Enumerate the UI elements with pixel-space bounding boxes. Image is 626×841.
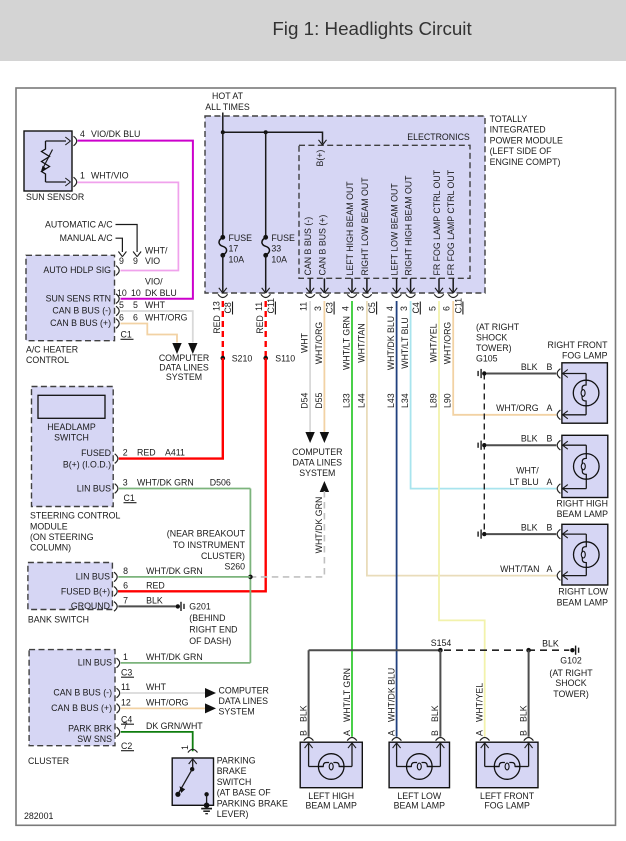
wire D54 WHT: [309, 301, 311, 432]
svg-text:POWER MODULE: POWER MODULE: [490, 135, 563, 145]
connector sun sensor pin 4: [74, 136, 77, 146]
svg-text:10: 10: [131, 288, 141, 298]
svg-text:CONTROL: CONTROL: [26, 355, 69, 365]
junction fog lamp ground: [526, 648, 531, 653]
svg-text:LEFT LOW: LEFT LOW: [397, 791, 442, 801]
wire WHT/VIO sun sensor to AC: [78, 182, 179, 270]
svg-text:LIN BUS: LIN BUS: [77, 483, 111, 493]
ground G102: [570, 648, 574, 652]
svg-text:OF DASH): OF DASH): [189, 636, 231, 646]
svg-text:RIGHT END: RIGHT END: [189, 625, 237, 635]
connector bank pin 7: [114, 602, 117, 612]
wire D55 WHT/ORG: [323, 301, 325, 432]
svg-text:WHT/DK GRN: WHT/DK GRN: [146, 652, 203, 662]
parking brake switch contact arrow: [189, 759, 193, 764]
svg-text:WHT/: WHT/: [145, 246, 168, 256]
svg-text:WHT/YEL: WHT/YEL: [428, 323, 438, 362]
svg-text:BRAKE: BRAKE: [217, 766, 247, 776]
svg-text:5: 5: [428, 306, 438, 311]
svg-text:RED: RED: [146, 580, 165, 590]
svg-text:INTEGRATED: INTEGRATED: [490, 125, 546, 135]
svg-text:RED: RED: [255, 315, 265, 334]
svg-text:WHT/TAN: WHT/TAN: [500, 564, 539, 574]
svg-text:3: 3: [355, 306, 365, 311]
svg-text:PARKING: PARKING: [217, 756, 256, 766]
wire RED fused C11 dashed: [265, 301, 267, 358]
splice S110: [263, 356, 268, 361]
svg-text:5: 5: [119, 300, 124, 310]
ground bus dashed to G102: [444, 649, 569, 651]
svg-text:SYSTEM: SYSTEM: [219, 707, 255, 717]
svg-text:(BEHIND: (BEHIND: [189, 613, 225, 623]
splice S260: [248, 575, 253, 580]
arrow fuse17 out: [219, 288, 223, 293]
svg-text:BEAM LAMP: BEAM LAMP: [557, 509, 608, 519]
wire manual ac arrow: [116, 238, 123, 252]
svg-text:L43: L43: [386, 393, 396, 408]
svg-text:CAN B BUS (+): CAN B BUS (+): [317, 215, 327, 276]
wire BLK left high beam: [308, 650, 310, 737]
svg-text:7: 7: [123, 596, 128, 606]
svg-text:BLK: BLK: [298, 705, 308, 722]
svg-text:WHT/DK BLU: WHT/DK BLU: [386, 668, 396, 722]
svg-text:WHT/DK GRN: WHT/DK GRN: [146, 566, 203, 576]
svg-text:AUTO HDLP SIG: AUTO HDLP SIG: [43, 265, 111, 275]
svg-text:C4: C4: [411, 302, 421, 313]
svg-text:CLUSTER): CLUSTER): [201, 551, 245, 561]
svg-text:VIO/: VIO/: [145, 276, 163, 286]
svg-text:C11: C11: [454, 298, 464, 314]
wire automatic ac arrow: [116, 225, 138, 253]
svg-text:DK BLU: DK BLU: [145, 288, 177, 298]
svg-text:WHT/TAN: WHT/TAN: [356, 323, 366, 362]
svg-text:TOTALLY: TOTALLY: [490, 114, 528, 124]
svg-text:4: 4: [80, 129, 85, 139]
svg-text:(AT RIGHT: (AT RIGHT: [476, 322, 520, 332]
svg-text:L34: L34: [400, 393, 410, 408]
svg-text:G102: G102: [560, 655, 582, 665]
wire RED fused C8 dashed: [222, 301, 224, 358]
svg-text:L89: L89: [428, 393, 438, 408]
svg-text:FOG LAMP: FOG LAMP: [484, 800, 530, 810]
svg-text:DATA LINES: DATA LINES: [293, 458, 343, 468]
wire RED A411 to headlamp switch: [119, 358, 223, 459]
svg-text:A: A: [342, 730, 352, 736]
svg-text:WHT/DK GRN: WHT/DK GRN: [137, 478, 194, 488]
arrow electronics pin out 2: [348, 288, 352, 293]
svg-text:4: 4: [385, 306, 395, 311]
svg-text:3: 3: [313, 306, 323, 311]
svg-text:SW SNS: SW SNS: [77, 734, 112, 744]
parking brake switch ground leg: [204, 792, 208, 796]
svg-text:3: 3: [399, 306, 409, 311]
svg-text:VIO: VIO: [145, 256, 160, 266]
svg-text:CAN B BUS (-): CAN B BUS (-): [303, 217, 313, 276]
steering control module box: [32, 387, 114, 507]
svg-text:5: 5: [133, 300, 138, 310]
wire WHT/DK GRN D506: [119, 488, 250, 490]
svg-text:BEAM LAMP: BEAM LAMP: [557, 598, 608, 608]
svg-text:BEAM LAMP: BEAM LAMP: [306, 800, 357, 810]
connector steering pin 3: [115, 484, 118, 494]
svg-text:AUTOMATIC A/C: AUTOMATIC A/C: [45, 219, 113, 229]
svg-text:LEFT HIGH: LEFT HIGH: [308, 791, 354, 801]
svg-text:S260: S260: [224, 562, 245, 572]
svg-text:(AT BASE OF: (AT BASE OF: [217, 788, 272, 798]
svg-text:10A: 10A: [271, 254, 287, 264]
sun sensor box: [24, 131, 72, 191]
svg-text:D54: D54: [300, 393, 310, 409]
wire WHT cluster: [121, 692, 207, 694]
ground bus left lamps: [309, 649, 441, 651]
wire BLK to G201: [118, 605, 176, 607]
svg-text:HEADLAMP: HEADLAMP: [47, 422, 96, 432]
svg-text:LIN BUS: LIN BUS: [76, 571, 110, 581]
wire WHT/ORG right fog lamp: [453, 301, 556, 415]
wire WHT/TAN right low beam: [367, 301, 556, 576]
parking brake switch lever: [190, 767, 194, 771]
connector arc pin 3: [362, 294, 372, 297]
wire WHT can b minus ac: [121, 311, 193, 343]
chassis ground right 2: [482, 443, 486, 447]
wire WHT/ORG can b plus ac: [121, 324, 178, 343]
connector parking brake pin 1: [188, 749, 198, 752]
svg-text:C5: C5: [367, 302, 377, 313]
svg-text:FR FOG LAMP CTRL OUT: FR FOG LAMP CTRL OUT: [446, 169, 456, 275]
lamp right high beam: [562, 435, 608, 497]
cluster box: [29, 650, 115, 746]
svg-text:SHOCK: SHOCK: [476, 333, 507, 343]
svg-text:1: 1: [180, 745, 190, 750]
wire WHT/DK BLU left low beam: [396, 301, 398, 737]
svg-text:17: 17: [229, 244, 239, 254]
wire fuse33 bottom: [265, 255, 267, 291]
svg-text:LEVER): LEVER): [217, 809, 249, 819]
wire WHT/LT BLU right high beam: [411, 301, 557, 489]
junction fuse17 feed: [221, 130, 225, 134]
wire electronics pin out 4: [396, 278, 398, 292]
svg-text:2: 2: [123, 448, 128, 458]
svg-text:ELECTRONICS: ELECTRONICS: [407, 132, 470, 142]
svg-text:B: B: [547, 522, 553, 532]
wire fuse33 top: [265, 132, 267, 237]
svg-text:G201: G201: [189, 601, 211, 611]
AC heater control box: [26, 255, 115, 340]
svg-text:C8: C8: [223, 302, 233, 313]
ground bus G105 dashed: [483, 374, 485, 535]
svg-text:FUSED B(+): FUSED B(+): [61, 587, 110, 597]
connector arc pin 4: [347, 294, 357, 297]
svg-text:GROUND: GROUND: [71, 601, 110, 611]
lamp right front fog: [562, 363, 608, 423]
svg-text:WHT/ORG: WHT/ORG: [145, 313, 188, 323]
svg-text:COMPUTER: COMPUTER: [159, 353, 209, 363]
svg-text:WHT/ORG: WHT/ORG: [314, 322, 324, 365]
svg-text:SWITCH: SWITCH: [54, 432, 89, 442]
arrow electronics pin out 4: [393, 288, 397, 293]
svg-text:8: 8: [123, 566, 128, 576]
wire electronics pin out 3: [366, 278, 368, 292]
svg-text:SYSTEM: SYSTEM: [299, 468, 335, 478]
wire lin bus cluster: [121, 662, 251, 664]
svg-text:LT BLU: LT BLU: [510, 477, 539, 487]
svg-text:4: 4: [341, 306, 351, 311]
connector arc pin 5: [434, 294, 444, 297]
svg-text:A: A: [475, 730, 485, 736]
header bar: [0, 0, 626, 61]
svg-text:FUSE: FUSE: [229, 233, 253, 243]
svg-text:12: 12: [121, 698, 131, 708]
svg-text:11: 11: [299, 302, 309, 311]
svg-text:COLUMN): COLUMN): [30, 543, 71, 553]
connector arc fuse pin 11: [261, 294, 271, 297]
photoresistor R inside sun sensor: [42, 141, 50, 182]
svg-text:(LEFT SIDE OF: (LEFT SIDE OF: [490, 146, 553, 156]
svg-text:LEFT LOW BEAM OUT: LEFT LOW BEAM OUT: [390, 183, 400, 276]
lamp right low beam: [562, 524, 608, 585]
arrow D55: [320, 432, 329, 443]
splice S154: [438, 648, 443, 653]
svg-text:A: A: [386, 730, 396, 736]
wire BLK right lamp 2: [487, 444, 557, 446]
svg-text:ALL TIMES: ALL TIMES: [205, 102, 250, 112]
wire DK GRN/WHT park brake: [121, 732, 193, 751]
arrow from computer data lines: [320, 481, 329, 492]
ELECTRONICS inner box: [299, 145, 470, 278]
connector arc pin 6: [448, 294, 458, 297]
svg-text:FOG LAMP: FOG LAMP: [562, 351, 608, 361]
wire electronics pin out 5: [410, 278, 412, 292]
svg-text:FUSE: FUSE: [271, 233, 295, 243]
wire VIO/DK BLU sun sensor to AC: [78, 141, 193, 299]
svg-text:RED: RED: [137, 448, 156, 458]
svg-text:10A: 10A: [229, 254, 245, 264]
svg-text:D506: D506: [210, 478, 231, 488]
wire electronics pin out 7: [452, 278, 454, 292]
svg-text:S154: S154: [431, 638, 452, 648]
svg-text:DATA LINES: DATA LINES: [219, 696, 269, 706]
svg-text:A411: A411: [165, 448, 185, 458]
connector cluster pin 7: [117, 727, 120, 737]
svg-text:MANUAL A/C: MANUAL A/C: [60, 233, 114, 243]
svg-text:BANK SWITCH: BANK SWITCH: [28, 615, 89, 625]
svg-text:WHT/DK GRN: WHT/DK GRN: [314, 497, 324, 554]
lamp left front fog: [476, 742, 538, 788]
svg-text:WHT: WHT: [300, 332, 310, 353]
svg-text:RIGHT LOW: RIGHT LOW: [558, 586, 608, 596]
svg-text:B: B: [547, 362, 553, 372]
wire fuse17 top: [222, 132, 224, 237]
headlamp switch knob: [38, 395, 105, 418]
svg-text:TOWER): TOWER): [553, 689, 589, 699]
wire lin bus vertical: [249, 489, 251, 663]
svg-text:L33: L33: [341, 393, 351, 408]
fuse F17: [220, 235, 225, 240]
svg-text:11: 11: [121, 682, 130, 692]
arrow electronics pin out 6: [435, 288, 439, 293]
svg-text:7: 7: [123, 721, 128, 731]
svg-text:B: B: [547, 434, 553, 444]
svg-text:10: 10: [117, 288, 127, 298]
earth ground parking brake: [201, 808, 212, 810]
svg-text:G105: G105: [476, 354, 498, 364]
svg-text:RIGHT LOW BEAM OUT: RIGHT LOW BEAM OUT: [360, 177, 370, 276]
connector arc fuse pin 13: [218, 294, 228, 297]
connector cluster pin 12: [117, 704, 120, 714]
svg-text:C1: C1: [124, 493, 135, 503]
svg-text:A: A: [547, 403, 553, 413]
connector arc pin 4: [392, 294, 402, 297]
svg-text:9: 9: [133, 256, 138, 266]
wire WHT/DK GRN dashed to S260: [250, 491, 324, 577]
svg-text:3: 3: [123, 478, 128, 488]
svg-text:DATA LINES: DATA LINES: [159, 363, 209, 373]
svg-text:TO INSTRUMENT: TO INSTRUMENT: [173, 540, 246, 550]
svg-text:B(+) (I.O.D.): B(+) (I.O.D.): [63, 460, 111, 470]
svg-text:C3: C3: [325, 302, 335, 313]
svg-text:COMPUTER: COMPUTER: [219, 686, 269, 696]
connector AC pin 6: [116, 319, 119, 329]
parking brake switch box: [172, 758, 213, 805]
wire electronics pin out 6: [438, 278, 440, 292]
arrow can b plus ac: [172, 343, 181, 354]
svg-text:B: B: [430, 730, 440, 736]
connector AC pin 5: [116, 306, 119, 316]
wire BLK right lamp 1: [487, 373, 557, 375]
wire fuse17 bottom: [222, 255, 224, 291]
bank switch box: [28, 563, 113, 610]
connector arc pin 3: [320, 294, 330, 297]
svg-text:33: 33: [271, 244, 281, 254]
svg-text:B: B: [298, 730, 308, 736]
connector arc pin 11: [305, 294, 315, 297]
fuse F33: [263, 235, 268, 240]
wire WHT/LT GRN left high beam: [351, 301, 353, 737]
svg-text:WHT/: WHT/: [516, 465, 539, 475]
arrow electronics pin out 7: [449, 288, 453, 293]
svg-text:TOWER): TOWER): [476, 343, 512, 353]
svg-text:WHT/ORG: WHT/ORG: [496, 403, 539, 413]
svg-text:SUN SENS RTN: SUN SENS RTN: [46, 293, 111, 303]
svg-text:C2: C2: [121, 741, 132, 751]
svg-text:S210: S210: [232, 353, 253, 363]
svg-text:VIO/DK BLU: VIO/DK BLU: [91, 129, 140, 139]
arrow electronics pin out 3: [363, 288, 367, 293]
wire BLK right lamp 3: [487, 533, 557, 535]
arrow can minus cluster: [205, 688, 216, 698]
svg-text:6: 6: [442, 306, 452, 311]
svg-text:PARK BRK: PARK BRK: [68, 724, 112, 734]
svg-text:LEFT FRONT: LEFT FRONT: [480, 791, 535, 801]
chassis ground right 1: [482, 371, 486, 375]
arrow D54: [305, 432, 314, 443]
svg-text:WHT: WHT: [146, 682, 167, 692]
svg-text:STEERING CONTROL: STEERING CONTROL: [30, 511, 121, 521]
svg-text:WHT/YEL: WHT/YEL: [475, 683, 485, 722]
svg-text:CAN B BUS (-): CAN B BUS (-): [52, 306, 111, 316]
svg-text:BLK: BLK: [146, 596, 163, 606]
svg-text:Fig 1: Headlights Circuit: Fig 1: Headlights Circuit: [272, 18, 472, 39]
svg-text:CLUSTER: CLUSTER: [28, 756, 69, 766]
sun sensor internal wire pin1: [46, 181, 67, 183]
connector cluster pin 11: [117, 688, 120, 698]
ground G201: [176, 604, 180, 608]
svg-text:11: 11: [254, 302, 264, 311]
svg-text:WHT/ORG: WHT/ORG: [146, 698, 189, 708]
wire electronics pin out 1: [323, 278, 325, 292]
svg-text:SHOCK: SHOCK: [555, 678, 586, 688]
svg-text:282001: 282001: [24, 811, 53, 821]
wire electronics pin out 2: [351, 278, 353, 292]
svg-text:6: 6: [133, 313, 138, 323]
svg-text:COMPUTER: COMPUTER: [292, 447, 342, 457]
svg-text:B: B: [518, 730, 528, 736]
lamp left high beam: [300, 742, 362, 788]
svg-text:SYSTEM: SYSTEM: [166, 372, 202, 382]
svg-text:C1: C1: [121, 330, 132, 340]
svg-text:C3: C3: [121, 667, 132, 677]
splice S210: [221, 356, 226, 361]
svg-text:1: 1: [123, 652, 128, 662]
wire WHT/ORG cluster: [121, 707, 207, 709]
svg-text:(AT RIGHT: (AT RIGHT: [549, 668, 593, 678]
wire hot feed into TIPM: [222, 113, 224, 133]
connector cluster pin 1: [117, 658, 120, 668]
svg-text:C11: C11: [266, 298, 276, 314]
arrow B+ into electronics: [319, 140, 323, 145]
TIPM outer module box: [205, 116, 485, 293]
svg-text:CAN B BUS (+): CAN B BUS (+): [51, 703, 112, 713]
svg-text:FR FOG LAMP CTRL OUT: FR FOG LAMP CTRL OUT: [432, 169, 442, 275]
svg-text:A: A: [547, 477, 553, 487]
svg-text:MODULE: MODULE: [30, 521, 68, 531]
svg-text:13: 13: [211, 301, 221, 311]
arrow can b minus ac: [188, 343, 197, 354]
wire B+ bus: [223, 132, 323, 143]
svg-text:ENGINE COMPT): ENGINE COMPT): [490, 157, 561, 167]
svg-text:RIGHT FRONT: RIGHT FRONT: [548, 340, 609, 350]
svg-text:LIN BUS: LIN BUS: [78, 658, 112, 668]
arrow fuse33 out: [262, 288, 266, 293]
svg-text:RED: RED: [212, 315, 222, 334]
arrow electronics pin out 1: [320, 288, 324, 293]
svg-text:CAN B BUS (-): CAN B BUS (-): [53, 688, 112, 698]
connector bank pin 8: [114, 572, 117, 582]
connector steering pin 2: [115, 454, 118, 464]
svg-text:BLK: BLK: [542, 639, 559, 649]
connector AC pin 10: [116, 294, 119, 304]
chassis ground right 3: [482, 532, 486, 536]
connector bank pin 6: [114, 587, 117, 597]
svg-text:A: A: [547, 564, 553, 574]
wire electronics pin out 0: [309, 278, 311, 292]
svg-text:FUSED: FUSED: [81, 448, 111, 458]
wire BLK left fog: [528, 650, 530, 737]
svg-text:B(+): B(+): [315, 150, 325, 167]
sun sensor internal wire pin4: [46, 140, 67, 142]
svg-text:(ON STEERING: (ON STEERING: [30, 532, 94, 542]
connector AC pin 9: [116, 266, 119, 276]
svg-text:WHT: WHT: [145, 300, 166, 310]
svg-text:(NEAR BREAKOUT: (NEAR BREAKOUT: [167, 528, 246, 538]
svg-text:SWITCH: SWITCH: [217, 777, 252, 787]
svg-text:9: 9: [119, 256, 124, 266]
svg-text:BLK: BLK: [521, 362, 538, 372]
svg-text:DK GRN/WHT: DK GRN/WHT: [146, 721, 203, 731]
svg-text:BLK: BLK: [521, 522, 538, 532]
svg-text:RIGHT HIGH: RIGHT HIGH: [556, 498, 608, 508]
svg-text:A/C HEATER: A/C HEATER: [26, 345, 78, 355]
